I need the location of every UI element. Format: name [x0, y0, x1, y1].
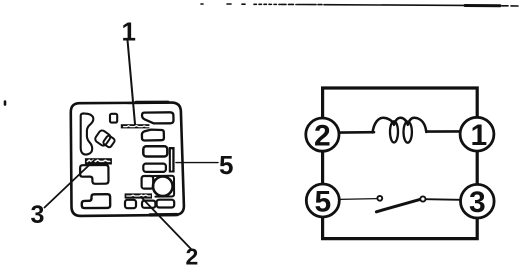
relay body bottom-edge thickening: [150, 213, 177, 217]
svg-text:3: 3: [31, 201, 45, 229]
wire coil to 1: [426, 130, 460, 133]
boot-shaped hole: [82, 194, 110, 208]
svg-text:5: 5: [315, 186, 332, 219]
wire 2 to coil: [339, 131, 374, 134]
terminal 5 bar (vertical): [169, 147, 175, 173]
hole rect bottom right: [157, 200, 175, 208]
terminal 3 housing (gamma shape): [80, 165, 108, 184]
terminal circle 3: [461, 184, 495, 218]
keying slot: [81, 113, 94, 154]
hole rect left of circle: [142, 176, 154, 189]
leader line 5: [176, 162, 218, 164]
svg-text:2: 2: [314, 120, 331, 153]
svg-text:3: 3: [469, 186, 486, 219]
hole rect lower: [143, 164, 166, 172]
wire 5 to contact: [339, 198, 376, 201]
terminal circle 2: [306, 118, 339, 151]
hole pentagon: [142, 130, 164, 141]
small square hole bottom-left: [125, 200, 136, 208]
pocket square around circle: [153, 176, 174, 197]
terminal 1 bar: [121, 124, 150, 128]
svg-text:1: 1: [122, 17, 136, 47]
coil loop b: [404, 122, 412, 143]
coil loop a: [390, 121, 398, 142]
stray speck: [4, 102, 7, 105]
contact b: [420, 196, 425, 201]
relay body top-edge thickening: [136, 101, 168, 104]
svg-text:2: 2: [186, 244, 199, 270]
terminal circle 5: [306, 184, 339, 217]
leader line 1: [128, 40, 136, 124]
wire loop rectangle: [323, 88, 478, 239]
leader line 2: [141, 197, 192, 250]
leader line 3: [45, 161, 95, 208]
switch blade: [376, 199, 420, 211]
svg-text:1: 1: [471, 119, 488, 152]
relay coil: [373, 118, 427, 133]
terminal 3 bar (hatched): [85, 158, 112, 164]
tilted slot (two lobes): [94, 129, 116, 148]
hole rect mid: [143, 146, 167, 156]
relay body outline: [71, 103, 184, 216]
terminal 2 bar (hatched): [125, 193, 152, 198]
armature circle: [153, 177, 173, 197]
hole group upper-right (flag shape): [142, 112, 174, 123]
page rule (dashed top line): [201, 4, 518, 6]
terminal circle 1: [460, 117, 494, 151]
wire contact to 3: [426, 198, 461, 201]
contact a: [377, 196, 382, 201]
svg-text:5: 5: [219, 150, 233, 180]
small square hole: [110, 114, 117, 123]
hole rect small bottom: [142, 201, 155, 208]
